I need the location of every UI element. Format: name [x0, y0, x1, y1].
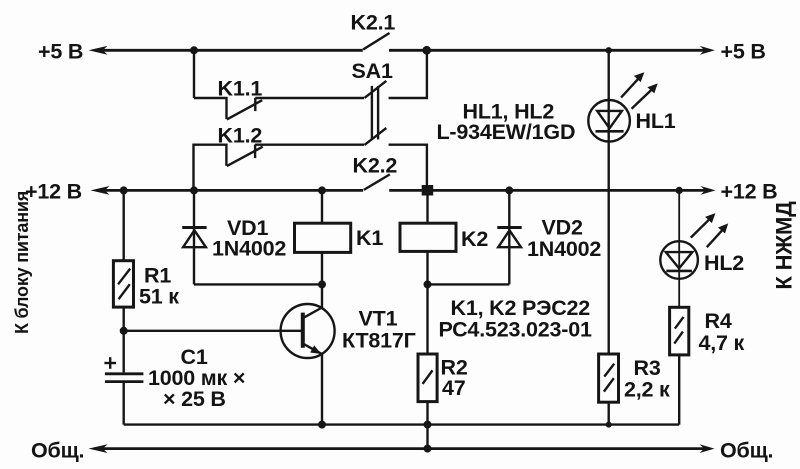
resistor R1: [113, 261, 133, 307]
wire R4 to bottom wire: [678, 355, 680, 425]
wire R1 to base node: [122, 307, 124, 331]
capacitor C1: [104, 357, 143, 381]
wire from +5V rail down to K1.1: [193, 50, 195, 98]
common rail (Obshch.): [89, 444, 715, 453]
svg-text:Общ.: Общ.: [720, 438, 773, 462]
node collector junction: [318, 280, 326, 288]
wire bottom wire to common rail: [426, 425, 428, 449]
node at +12V rail x124: [120, 186, 128, 194]
wire VD1 bottom to collector node: [194, 283, 322, 285]
svg-text:K2.1: K2.1: [351, 11, 396, 35]
node at +12V rail x427: [422, 185, 434, 196]
node at +12V rail x322: [318, 186, 326, 194]
+12V rail left segment: [91, 186, 364, 195]
wire +12V rail through HL2 to R4: [678, 190, 680, 307]
resistor R3: [599, 354, 619, 402]
node base junction: [120, 327, 128, 335]
svg-text:Общ.: Общ.: [31, 438, 84, 462]
node common rail: [424, 445, 432, 453]
contact K1.2 fixed tick: [254, 145, 256, 159]
switch K2.2 blade: [364, 174, 390, 190]
contact K1.2 blade: [227, 147, 263, 166]
wire K1 coil to VT1 collector: [321, 252, 323, 307]
diode VD1: [182, 228, 206, 248]
wire +12V rail to R1: [122, 190, 124, 260]
svg-text:K1.2: K1.2: [218, 124, 263, 148]
svg-text:47: 47: [442, 376, 466, 400]
wire K1.2 left lead: [194, 145, 227, 191]
svg-text:HL1: HL1: [636, 109, 676, 133]
wire base node to VT1 base: [124, 330, 302, 332]
node at +12V rail x194: [190, 186, 198, 194]
wire VT1 emitter down: [321, 354, 323, 425]
LED HL2: [660, 213, 728, 279]
node at +5V rail x427: [422, 46, 431, 55]
contact K1.1 fixed tick: [254, 98, 256, 111]
node emitter junction: [318, 421, 326, 429]
svg-text:РС4.523.023-01: РС4.523.023-01: [439, 318, 592, 342]
+5V rail left segment: [89, 46, 363, 55]
svg-text:+5 В: +5 В: [38, 39, 83, 63]
svg-text:K1: K1: [356, 226, 383, 250]
svg-text:K1.1: K1.1: [218, 77, 263, 101]
wire SA1 top right lead up to +5V rail: [389, 50, 427, 98]
svg-text:+12 В: +12 В: [721, 179, 778, 203]
wire +5V rail through HL1 to R3: [608, 50, 610, 354]
node at +12V rail x679: [676, 187, 683, 194]
svg-text:R3: R3: [634, 356, 661, 380]
node at +5V rail x194: [190, 46, 198, 54]
svg-text:1N4002: 1N4002: [527, 237, 601, 261]
switch K2.1 blade: [363, 33, 389, 50]
wire +12V rail through VD2: [508, 190, 510, 284]
svg-text:VT1: VT1: [359, 307, 398, 331]
svg-text:R4: R4: [705, 309, 732, 333]
svg-text:К блоку питания: К блоку питания: [12, 191, 32, 334]
node K2/VD2 junction: [424, 280, 432, 288]
bottom wire: [124, 423, 680, 425]
svg-text:2,2 к: 2,2 к: [624, 378, 670, 402]
wire SA1 bottom right lead down to +12V rail: [389, 145, 427, 191]
wire +12V rail to K1 coil: [321, 190, 323, 223]
transistor VT1: [281, 304, 335, 358]
wire base node down to C1: [122, 331, 124, 373]
svg-text:+5 В: +5 В: [721, 39, 766, 63]
svg-text:+12 В: +12 В: [25, 179, 82, 203]
wire VD2 bottom to K2 junction: [428, 283, 510, 285]
svg-text:K2: K2: [461, 227, 488, 251]
switch SA1 bottom blade: [365, 128, 387, 145]
svg-text:K2.2: K2.2: [353, 154, 398, 178]
contact K1.1 blade: [227, 100, 262, 119]
wire K1.2 right lead: [255, 143, 364, 145]
node +5V rail x609: [606, 47, 612, 53]
+5V rail right segment: [389, 46, 715, 55]
relay coil K2: [400, 223, 456, 251]
svg-text:SA1: SA1: [352, 59, 393, 83]
resistor R2: [418, 354, 437, 402]
node R2 bottom: [424, 421, 432, 429]
wire C1 to bottom wire: [122, 383, 124, 425]
resistor R4: [670, 307, 689, 355]
svg-text:HL2: HL2: [704, 251, 744, 275]
switch SA1 coupling bars: [371, 86, 373, 139]
wire +12V rail through VD1: [193, 190, 195, 284]
+12V rail right segment: [389, 186, 715, 195]
diode VD2: [497, 228, 521, 248]
wire K2 coil to R2: [426, 251, 428, 354]
wire K1.1 right lead: [255, 97, 364, 99]
svg-text:K1, K2 РЭС22: K1, K2 РЭС22: [451, 296, 591, 320]
wire R3 to bottom wire: [608, 402, 610, 424]
node at +12V rail x509: [505, 186, 513, 194]
node R3 bottom: [606, 422, 612, 428]
svg-text:51 к: 51 к: [139, 284, 179, 308]
svg-text:4,7 к: 4,7 к: [699, 331, 745, 355]
relay coil K1: [295, 223, 351, 252]
svg-text:КТ817Г: КТ817Г: [342, 329, 416, 353]
wire K1.1 left lead: [194, 98, 227, 119]
LED HL1: [588, 72, 657, 141]
svg-text:1N4002: 1N4002: [212, 237, 286, 261]
wire R2 to bottom wire: [426, 402, 428, 425]
svg-text:L-934EW/1GD: L-934EW/1GD: [437, 120, 576, 144]
switch SA1 top blade: [365, 81, 387, 98]
svg-text:× 25 В: × 25 В: [163, 387, 226, 411]
svg-text:VD2: VD2: [542, 216, 583, 240]
svg-text:К НЖМД: К НЖМД: [772, 201, 797, 290]
wire +12V rail to K2 coil: [426, 190, 428, 223]
